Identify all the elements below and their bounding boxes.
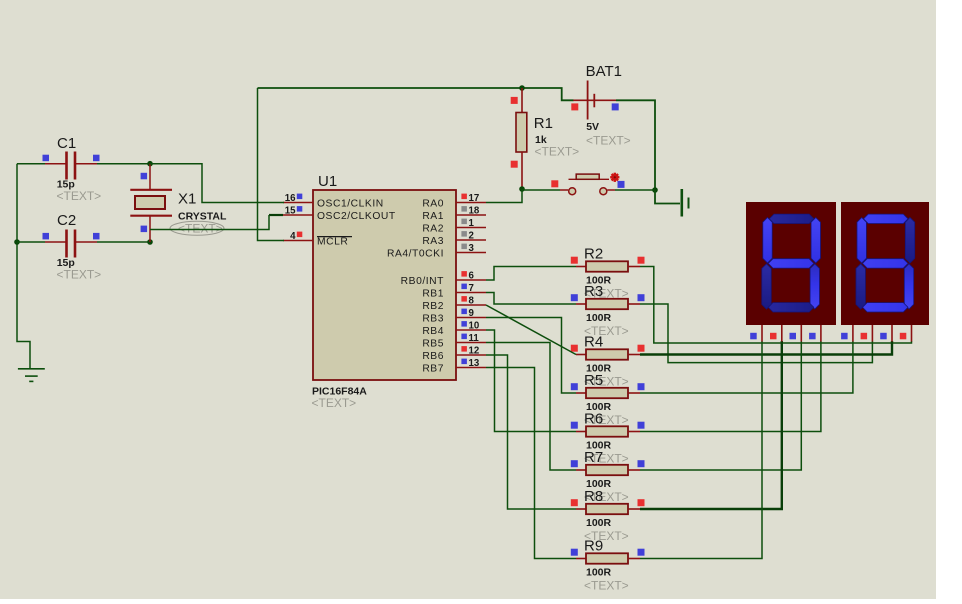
node: crystal top junction: [147, 161, 153, 167]
wire: pin11 RB5 to R7: [486, 343, 576, 471]
svg-text:13: 13: [469, 358, 480, 369]
svg-text:16: 16: [285, 193, 296, 204]
wire: crystal top node to OSC1 pin16: [150, 164, 284, 203]
svg-text:<TEXT>: <TEXT>: [584, 579, 629, 593]
svg-text:RA0: RA0: [422, 199, 444, 210]
wire: C2 right to crystal bottom node: [97, 241, 150, 243]
ground (right earth symbol): [682, 189, 689, 217]
svg-text:R6: R6: [584, 411, 603, 428]
pin 2 of display 2: [861, 325, 873, 342]
pin 4 MCLR overline: [317, 236, 352, 238]
op-amp U1 body (PIC16F84A IC): [312, 173, 457, 410]
pin 18 (RA1) of U1: [422, 206, 486, 223]
svg-text:RB3: RB3: [422, 314, 444, 325]
wire: C1 left to rail: [17, 163, 45, 165]
wire: pin12 RB6 to R8: [486, 355, 576, 509]
svg-text:3: 3: [469, 243, 475, 254]
switch actuator marker (red asterisk): [610, 176, 619, 178]
resistor R5: [571, 372, 645, 427]
svg-text:C1: C1: [57, 135, 76, 152]
pin 4 of display 1: [809, 325, 821, 342]
pin 3 (RA4/T0CKI) of U1: [387, 243, 486, 260]
switch (push button): [551, 173, 624, 195]
svg-text:RA3: RA3: [422, 236, 444, 247]
pin 3 of display 2: [880, 325, 892, 342]
svg-text:4: 4: [290, 231, 296, 242]
svg-text:18: 18: [469, 206, 480, 217]
svg-text:RB6: RB6: [422, 351, 444, 362]
svg-text:100R: 100R: [586, 567, 612, 579]
wire: junction down to right ground: [655, 190, 680, 204]
node: switch right junction: [652, 187, 658, 193]
wire: left rail from C1 down to ground: [17, 164, 30, 369]
pin 16 (OSC1/CLKIN) of U1: [283, 193, 384, 210]
svg-text:<TEXT>: <TEXT>: [586, 134, 631, 148]
pin 17 (RA0) of U1: [422, 193, 486, 210]
wire: VCC vertical to MCLR pin4: [258, 88, 285, 241]
resistor R1: [511, 88, 579, 189]
wire: pin8 RB2 to R4 (diagonal): [486, 305, 576, 355]
svg-text:RA4/T0CKI: RA4/T0CKI: [387, 249, 444, 260]
svg-text:R3: R3: [584, 283, 603, 300]
svg-text:OSC2/CLKOUT: OSC2/CLKOUT: [317, 211, 396, 222]
svg-text:RA2: RA2: [422, 224, 444, 235]
wire: pin6 RB0 to R2: [486, 267, 576, 281]
pin 10 (RB4) of U1: [422, 321, 486, 338]
wire: R4 to display2 pin3: [640, 341, 892, 355]
resistor R8: [571, 488, 645, 543]
svg-text:17: 17: [469, 193, 480, 204]
wire: R3 to display2 pin2: [640, 304, 872, 363]
svg-text:RA1: RA1: [422, 211, 444, 222]
svg-text:5V: 5V: [586, 121, 599, 133]
pin 1 of display 1: [750, 325, 762, 342]
wire: R9 to display1 pin1: [640, 341, 762, 559]
wire: C1 right to crystal top node: [97, 163, 150, 165]
resistor R6: [571, 411, 645, 466]
svg-text:U1: U1: [318, 173, 337, 190]
wire: C2 left to rail: [17, 241, 45, 243]
node: R1 top junction: [519, 85, 525, 91]
svg-text:RB2: RB2: [422, 301, 444, 312]
wire: OSC2 pin15 to crystal bottom stub: [269, 214, 283, 216]
pin 13 (RB7) of U1: [422, 358, 486, 375]
resistor R4: [571, 334, 645, 389]
node: R1 bottom junction: [519, 186, 525, 192]
svg-text:6: 6: [469, 271, 475, 282]
resistor R2: [571, 246, 645, 301]
battery BAT1: [571, 63, 630, 148]
svg-text:OSC1/CLKIN: OSC1/CLKIN: [317, 199, 384, 210]
pin 2 of display 1: [770, 325, 782, 342]
resistor R7: [571, 449, 645, 504]
node: crystal bottom junction: [147, 239, 153, 245]
resistor R3: [571, 283, 645, 338]
svg-text:12: 12: [469, 346, 480, 357]
wire: pin9 RB3 to R5: [486, 318, 576, 394]
pin 12 (RB6) of U1: [422, 346, 486, 363]
pin 1 (RA2) of U1: [422, 218, 486, 235]
wire: R6 to display1 pin4: [640, 341, 821, 432]
pin 11 (RB5) of U1: [422, 333, 486, 350]
svg-text:<TEXT>: <TEXT>: [535, 145, 580, 159]
svg-text:<TEXT>: <TEXT>: [57, 267, 102, 281]
pin 7 (RB1) of U1: [422, 283, 486, 300]
svg-text:MCLR: MCLR: [317, 237, 348, 248]
capacitor C1: [17, 135, 101, 203]
wire: R7 to display1 pin3: [640, 341, 801, 470]
svg-text:1: 1: [469, 218, 475, 229]
svg-text:<TEXT>: <TEXT>: [57, 189, 102, 203]
svg-text:RB7: RB7: [422, 364, 444, 375]
svg-text:100R: 100R: [586, 517, 612, 529]
pin 1 of display 2: [841, 325, 853, 342]
wire: R2 to display2 pin4: [640, 267, 912, 344]
wire: R1 bottom to RA0 pin17: [486, 189, 522, 203]
capacitor C2: [14, 212, 150, 281]
wire: switch to right junction: [615, 189, 655, 191]
pin 15 (OSC2/CLKOUT) of U1: [283, 206, 396, 223]
wire: battery right down to switch line: [616, 100, 655, 190]
svg-text:BAT1: BAT1: [586, 63, 622, 80]
svg-text:<TEXT>: <TEXT>: [312, 396, 357, 410]
7-segment display DS2 (digit 5): [841, 202, 929, 325]
wire: pin7 RB1 to R3: [486, 293, 576, 305]
resistor R9: [571, 538, 645, 593]
wire: R8 to display1 pin2: [640, 341, 782, 509]
wire: R5 to display2 pin1: [640, 341, 853, 393]
pin 4 of display 2: [900, 325, 912, 342]
svg-text:8: 8: [469, 296, 475, 307]
pin 9 (RB3) of U1: [422, 308, 486, 325]
svg-text:X1: X1: [178, 191, 196, 208]
pin 4 (MCLR) of U1: [283, 231, 348, 248]
svg-text:9: 9: [469, 308, 475, 319]
pin 2 (RA3) of U1: [422, 231, 486, 248]
pin 6 (RB0/INT) of U1: [401, 271, 486, 288]
svg-text:R5: R5: [584, 372, 603, 389]
wire: top rail to battery: [258, 88, 574, 100]
svg-text:RB1: RB1: [422, 289, 444, 300]
7-segment display DS1 (digit 4): [746, 202, 836, 325]
svg-text:R4: R4: [584, 334, 603, 351]
svg-text:R7: R7: [584, 449, 603, 466]
wire: pin13 RB7 to R9: [486, 368, 576, 559]
svg-text:11: 11: [469, 333, 480, 344]
svg-text:RB5: RB5: [422, 339, 444, 350]
svg-text:7: 7: [469, 283, 474, 294]
svg-text:C2: C2: [57, 212, 76, 229]
node: junction C2/rail: [14, 239, 20, 245]
crystal X1: [130, 164, 227, 242]
ground (bottom-left earth symbol): [18, 369, 45, 382]
wire: R1 junction to switch: [522, 189, 560, 190]
svg-text:R1: R1: [534, 115, 553, 132]
wire: pin10 RB4 to R6: [486, 330, 576, 432]
svg-text:R9: R9: [584, 538, 603, 555]
svg-text:15: 15: [285, 206, 296, 217]
svg-text:RB4: RB4: [422, 326, 444, 337]
svg-text:2: 2: [469, 231, 474, 242]
svg-text:10: 10: [469, 321, 480, 332]
svg-text:100R: 100R: [586, 312, 612, 324]
svg-text:R8: R8: [584, 488, 603, 505]
pin 3 of display 1: [790, 325, 802, 342]
svg-text:RB0/INT: RB0/INT: [401, 276, 444, 287]
svg-text:R2: R2: [584, 246, 603, 263]
pin 8 (RB2) of U1: [422, 296, 486, 313]
